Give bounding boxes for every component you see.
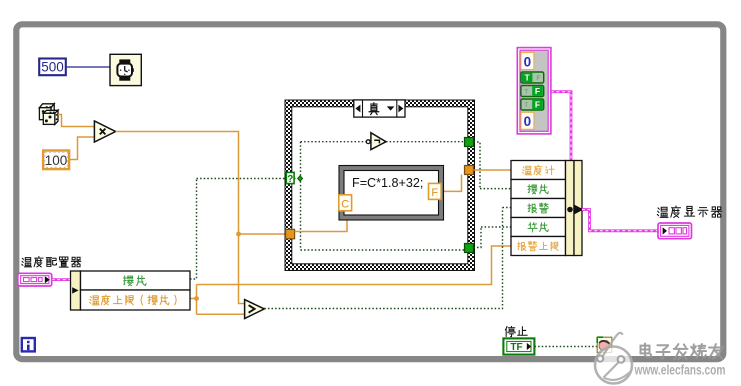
svg-text:T: T	[524, 73, 530, 83]
multiply function	[94, 121, 115, 142]
case structure border (checkered)	[285, 100, 475, 271]
numeric constant 100	[43, 151, 69, 170]
control terminal 温度配置器	[18, 273, 52, 286]
case selector label 真	[354, 100, 405, 117]
numeric constant 500	[39, 59, 66, 76]
case selector terminal ?	[286, 172, 294, 185]
wire: orange into formula node C	[295, 211, 347, 232]
svg-text:?: ?	[287, 174, 293, 185]
svg-text:0: 0	[524, 54, 532, 69]
tunnel: orange input on case left border	[286, 229, 295, 238]
svg-text:F: F	[431, 187, 438, 199]
svg-text:F: F	[535, 100, 540, 110]
node label 停止	[505, 326, 527, 336]
wires inside case (green dotted)	[294, 142, 465, 250]
bundle row label 华氏 (green)	[528, 223, 548, 232]
unbundle by name node	[71, 271, 191, 310]
wire: unbundle 摄氏 boolean to case selector (green dotted)	[190, 179, 287, 280]
bundle row label 摄氏 (green)	[528, 185, 548, 194]
bundle row label 报警上限 (orange)	[517, 241, 558, 251]
wire: formula node F to orange tunnel	[441, 175, 461, 192]
wire: multiply output down to greater-than and case tunnel (orange)	[116, 132, 286, 304]
wire: 温度配置器 to unbundle (pink dashed)	[52, 278, 71, 281]
boolean control terminal TF 停止	[503, 338, 534, 354]
node label 温度配置器	[22, 256, 81, 267]
svg-text:T: T	[524, 102, 528, 109]
wait-ms function U1 (metronome/watch icon)	[110, 54, 141, 85]
wire: bundle output to 温度显示器 (pink dashed)	[582, 210, 658, 231]
svg-text:F: F	[536, 75, 540, 82]
node label 温度显示器	[657, 206, 721, 217]
greater-than comparator	[245, 300, 265, 319]
wire: unbundle 温度上限 branch (orange)	[190, 246, 511, 314]
wire: comparator output to bundle 报警 (green dotted)	[264, 208, 511, 309]
unbundle row label 摄氏 (green)	[123, 276, 146, 286]
loop condition terminal (stop sign)	[597, 337, 612, 352]
not gate	[366, 133, 386, 150]
bundle row label 报警 (green)	[528, 203, 548, 213]
formula node output terminal F	[429, 183, 442, 199]
svg-text:www.elecfans.com: www.elecfans.com	[634, 363, 726, 378]
wire: 500 to wait-ms (blue)	[67, 66, 110, 68]
wire: green tunnel B to bundle 华氏 (dotted)	[474, 227, 512, 248]
wire: dice to multiply (orange)	[58, 115, 94, 127]
wire: 停止 TF to loop condition (green dotted)	[535, 346, 598, 348]
formula node F=C*1.8+32;	[339, 166, 444, 221]
bundle row label 温度计 (orange)	[523, 165, 555, 175]
svg-text:100: 100	[45, 153, 68, 168]
svg-text:F: F	[535, 86, 540, 96]
wire: orange tunnel to bundle 温度计	[474, 169, 512, 171]
svg-text:T: T	[524, 89, 528, 96]
wire: cluster constant to bundle input (pink dashed)	[551, 92, 571, 161]
tunnel: green B (bottom right)	[465, 244, 474, 253]
wire: 100 to multiply (orange)	[70, 137, 94, 160]
random number dice icon	[39, 104, 58, 125]
node: selector junction diamond	[298, 176, 303, 181]
cluster constant (0,T,F,F,0)	[517, 48, 551, 134]
svg-text:500: 500	[41, 60, 64, 75]
svg-text:C: C	[341, 198, 349, 210]
unbundle row label 温度上限（摄氏） (orange)	[90, 295, 176, 305]
watermark logo and text (elecfans)	[595, 333, 726, 384]
svg-text:0: 0	[524, 114, 532, 129]
tunnel: green A (top right)	[465, 138, 474, 147]
iteration terminal i	[22, 338, 35, 351]
wire: green tunnel A to bundle 摄氏 (dotted)	[474, 142, 512, 189]
formula node input terminal C	[339, 195, 352, 211]
bundle by name node	[511, 161, 584, 256]
svg-text:F=C*1.8+32;: F=C*1.8+32;	[352, 176, 423, 190]
tunnel: orange output (right)	[465, 166, 474, 175]
svg-text:TF: TF	[510, 342, 522, 353]
indicator terminal 温度显示器	[658, 223, 692, 239]
